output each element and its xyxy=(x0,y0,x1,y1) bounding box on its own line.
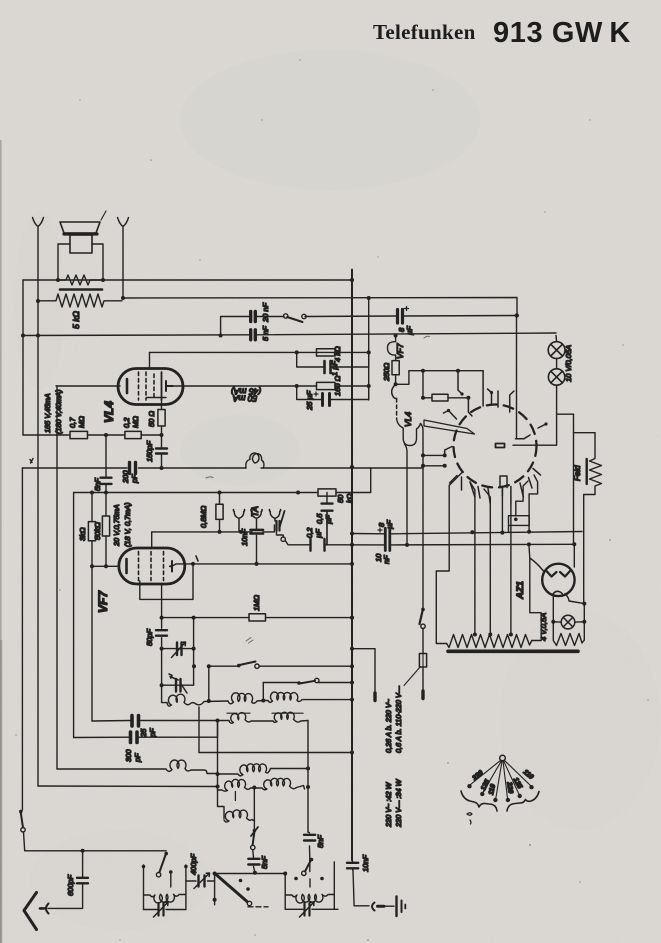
svg-text:AZ1: AZ1 xyxy=(515,581,526,600)
node dots line352 xyxy=(295,350,371,354)
svg-text:3kΩ: 3kΩ xyxy=(78,527,87,541)
TA jack 1 xyxy=(233,510,244,532)
band switch lever (big diagonal) xyxy=(216,875,247,902)
wire line y=617.6 with 1M xyxy=(162,617,352,619)
wire vertical x=92 lower xyxy=(91,566,93,721)
wire y=465.6 choke line to contact xyxy=(423,465,445,467)
node dots y=532 line xyxy=(470,530,531,535)
potentiometer slider bar xyxy=(60,288,102,291)
resistor 50kOhm tone xyxy=(318,489,336,496)
wire line y=386 plate line xyxy=(56,385,369,387)
svg-text:µF: µF xyxy=(324,515,333,524)
wire y=397.8 line xyxy=(423,397,468,399)
wire x=263.3 to switch2 xyxy=(262,683,264,701)
wire switch line y=682.5 xyxy=(263,682,352,684)
resistor box rotary top xyxy=(432,394,448,401)
rotary contact stub up2 xyxy=(482,371,484,406)
right box coil tap xyxy=(309,879,311,887)
svg-text:50 mA: 50 mA xyxy=(232,393,257,403)
resistor 50kOhm screen xyxy=(102,493,109,567)
resistor speaker shunt xyxy=(58,275,103,285)
svg-text:50pF: 50pF xyxy=(145,628,154,646)
wire 0.5uF bottom to line545 xyxy=(326,512,328,545)
wire feedback loop under VF7 xyxy=(140,564,193,600)
selector brace right xyxy=(507,792,539,812)
pointer line to fuse xyxy=(404,667,421,686)
svg-text:0,2: 0,2 xyxy=(122,417,131,428)
svg-text:pF: pF xyxy=(130,474,139,484)
resistor 0.7MOhm xyxy=(70,431,88,438)
right tuned box right rail xyxy=(333,862,335,909)
tube VF7 cathode xyxy=(125,559,128,573)
wire switch line y=666.2 xyxy=(209,665,352,667)
heater VL4 curl chain xyxy=(392,384,397,398)
capacitor 8uF smoothing (series bars) xyxy=(378,528,390,539)
wire x=423 mains down xyxy=(422,455,424,608)
node dot rail 786.5 xyxy=(216,785,220,789)
rotary bottom notch xyxy=(500,476,507,488)
wire line y=873.5 xyxy=(215,873,286,875)
wire line y=468 xyxy=(22,467,423,469)
node dots plate line xyxy=(191,562,354,566)
left box coil xyxy=(144,894,186,903)
svg-text:185 V,45mA: 185 V,45mA xyxy=(43,393,52,433)
svg-text:µF: µF xyxy=(405,326,414,335)
wire AZ1 filament left down xyxy=(552,597,554,622)
right box coil xyxy=(285,894,334,903)
wire heater return x=407 xyxy=(405,444,408,545)
wire line y=335 xyxy=(23,333,556,336)
svg-text:913 GW K: 913 GW K xyxy=(493,17,631,49)
wire tap vertical a xyxy=(470,482,475,634)
wire x=573.5 down to AZ1 xyxy=(573,414,575,544)
svg-text:600pF: 600pF xyxy=(66,874,75,896)
wire vertical x=22.4 xyxy=(21,468,23,810)
wire heater branch right xyxy=(396,371,484,385)
svg-text:(18 V, 0,7mA): (18 V, 0,7mA) xyxy=(123,503,132,547)
node dot DE xyxy=(252,786,256,790)
TA jack 2 xyxy=(251,510,262,529)
capacitor 300pF (series bars) xyxy=(131,732,138,743)
wire bus branch to terminal 1 xyxy=(352,649,375,693)
wire x=502.4 to y=533 xyxy=(501,488,503,533)
svg-text:25 µF: 25 µF xyxy=(305,390,314,411)
pilot lamp 4V xyxy=(553,615,584,629)
rotary contact stub up4 xyxy=(510,391,514,412)
wire trimmer column right x=193.6 xyxy=(193,618,195,685)
node dots 617.6 xyxy=(160,616,354,620)
speaker cone xyxy=(60,222,100,234)
wire y=545 line right of bus xyxy=(352,543,574,546)
capacitor 400pF variable xyxy=(186,873,215,889)
node dots 531.9 xyxy=(218,530,244,534)
svg-text:400pF: 400pF xyxy=(189,853,198,875)
node dots speaker xyxy=(36,278,125,303)
selector brace left xyxy=(461,791,497,811)
node dots x=214.6 xyxy=(213,872,217,902)
node dot 502.4 xyxy=(500,531,504,535)
wire line y=352.4 xyxy=(150,351,371,353)
capacitor 5nF (series in line) xyxy=(251,330,256,340)
band switch contacts xyxy=(239,879,250,891)
node dots line492 xyxy=(90,491,300,495)
capacitor 25uF electrolytic xyxy=(297,386,369,406)
wire cathode corner x=57 xyxy=(56,386,58,769)
node dot bus/280 xyxy=(350,278,354,282)
capacitor 200pF (series) xyxy=(130,463,136,474)
svg-text:pF: pF xyxy=(133,753,142,763)
rotary stub end dots xyxy=(447,391,548,426)
svg-text:10nF: 10nF xyxy=(240,528,249,546)
tube VF7 plate xyxy=(170,561,172,572)
svg-text:5 kΩ: 5 kΩ xyxy=(71,310,81,328)
core dashes IF1 right xyxy=(272,712,303,714)
wire row1 xyxy=(196,701,228,705)
coil IF1 primary A xyxy=(167,694,196,706)
label Feld xyxy=(573,459,587,484)
wire line y=720.5 from x=92 corner xyxy=(92,720,229,723)
svg-text:200: 200 xyxy=(121,470,130,484)
coil osc F (bottom row) xyxy=(224,810,255,822)
node dot row1 AB xyxy=(207,699,211,703)
wire VF7 grid top lead xyxy=(152,532,252,548)
wire y=455.4 xyxy=(423,454,445,456)
node dot 193.6 on 1M line xyxy=(192,616,196,620)
tube AZ1 xyxy=(542,564,574,596)
capacitor 25pF (series bars) xyxy=(132,716,139,727)
node dots 666.2 xyxy=(192,664,354,668)
tube VL4 plate lead xyxy=(166,381,173,391)
resistor 250 Ohm xyxy=(392,361,399,375)
node dot 600pF tap xyxy=(81,849,85,853)
node dot trimmer2 left xyxy=(160,683,164,687)
wire vertical x=254.4 xyxy=(253,787,255,831)
node dot hum box xyxy=(514,518,518,522)
resistor 1MOhm xyxy=(249,614,266,621)
antenna fork left (output terminal) xyxy=(33,218,44,281)
wire x=214.6 xyxy=(214,874,216,900)
switch wave band 2 xyxy=(297,678,319,685)
wire y=533 line with 8uF xyxy=(352,532,582,534)
svg-text:nF: nF xyxy=(382,555,391,564)
capacitor 8uF electrolytic (series in y=316 line) xyxy=(398,307,409,324)
rotary contact stub up1 xyxy=(468,398,472,416)
resistor 5kOhm xyxy=(37,294,122,307)
fuse xyxy=(419,629,426,692)
left box trimmer xyxy=(144,902,186,917)
coil choke y=468 xyxy=(246,453,264,468)
wire line y=316.5 with corner at 220.6 xyxy=(221,316,517,336)
node dot 161.5/468 xyxy=(160,466,164,470)
svg-text:4 kΩ: 4 kΩ xyxy=(333,346,342,362)
svg-text:5nF: 5nF xyxy=(93,478,102,491)
svg-text:0,8MΩ: 0,8MΩ xyxy=(199,505,208,528)
svg-text:Telefunken: Telefunken xyxy=(373,20,476,44)
wire vertical x=74 xyxy=(73,493,75,738)
TA switch bar xyxy=(277,521,280,531)
wire between lamps xyxy=(556,359,558,369)
coil osc D (loops) xyxy=(218,779,255,791)
tube VL4 beam plate bar xyxy=(147,397,167,399)
tube VL4 envelope xyxy=(118,369,183,405)
antenna fork right (output terminal) xyxy=(118,218,129,299)
svg-text:220 V~ :42 W: 220 V~ :42 W xyxy=(384,781,393,828)
node dots 423/455/466 xyxy=(421,453,447,467)
svg-text:VF7: VF7 xyxy=(96,590,110,613)
svg-text:MΩ: MΩ xyxy=(77,416,86,428)
scan edge artifact left xyxy=(0,140,2,943)
svg-text:10nF: 10nF xyxy=(361,854,370,872)
wire x=423 upper xyxy=(422,371,424,398)
svg-text:10 V/0,05A: 10 V/0,05A xyxy=(564,345,573,382)
node dots line435 xyxy=(104,433,164,437)
svg-text:µF: µF xyxy=(314,529,323,538)
node dot bus/466 xyxy=(350,465,354,469)
coil D tap xyxy=(234,792,236,801)
node dots trimmer1 xyxy=(160,647,196,651)
rotary contact wire right-lower 2 xyxy=(529,475,538,532)
svg-text:25: 25 xyxy=(139,728,148,738)
resistor lamp shunt zigzag xyxy=(553,622,584,646)
wire lamp right rail xyxy=(583,604,585,640)
hum box jog xyxy=(509,516,530,533)
stray pen mark xyxy=(101,211,106,220)
capacitor 5nF b xyxy=(304,832,315,860)
capacitor 5nF a xyxy=(248,850,259,873)
tube VL4 cathode xyxy=(126,379,129,393)
selector labels xyxy=(471,769,535,796)
svg-text:220 V— :34 W: 220 V— :34 W xyxy=(394,778,403,828)
coil osc E (loops) xyxy=(254,778,304,789)
wire line y=280 xyxy=(23,279,352,281)
svg-text:0,2: 0,2 xyxy=(305,527,314,538)
wire tap vertical c xyxy=(510,504,512,634)
rotary switch dashed circle xyxy=(454,404,537,487)
node dot 517/315.5 xyxy=(515,313,519,317)
wire zigzag right to AZ1 riser xyxy=(530,558,541,641)
wire line y=786.5 xyxy=(38,785,218,788)
wire rail x=217.5 xyxy=(218,721,225,819)
node dot E right xyxy=(306,785,310,789)
resistor 3kOhm xyxy=(88,493,95,567)
capacitor 50pF xyxy=(156,618,167,649)
wire vertical x=516.5 xyxy=(517,316,522,439)
TA switch lever xyxy=(280,511,285,527)
wire lamp2 down xyxy=(513,385,557,445)
svg-text:250Ω: 250Ω xyxy=(382,362,391,382)
svg-text:4 V,0,5A: 4 V,0,5A xyxy=(539,613,548,641)
dial lamp 1 xyxy=(548,342,565,359)
tube VL4 grids xyxy=(139,372,155,400)
svg-text:0,26 A b. 220 V~: 0,26 A b. 220 V~ xyxy=(384,698,393,753)
node dot bus 648.7 xyxy=(350,647,354,651)
rotary wiper arrow xyxy=(424,420,475,434)
svg-text:20 nF: 20 nF xyxy=(261,302,270,323)
capacitor 0.5uF xyxy=(322,493,333,546)
svg-text:5nF: 5nF xyxy=(316,835,325,848)
wire stub 458 down xyxy=(458,371,462,394)
wire vertical x=368.7 xyxy=(368,298,370,400)
svg-text:1 µF: 1 µF xyxy=(330,360,339,376)
tube VL4 grid3 solid xyxy=(161,372,163,400)
heater VL4 loop xyxy=(397,418,421,445)
resistor heater dropper zigzag xyxy=(447,635,532,648)
svg-text:160 Ω: 160 Ω xyxy=(333,375,342,396)
wire tap vertical b xyxy=(484,489,490,634)
squiggle mark xyxy=(467,813,472,824)
node dot row1 BC xyxy=(261,699,265,703)
heater VF7 curl xyxy=(387,336,395,361)
coil IF1 primary C xyxy=(263,692,352,702)
selector terminal dots xyxy=(467,784,533,802)
switch wave band 1 xyxy=(237,662,259,669)
node dots line335 xyxy=(21,334,398,338)
node dot heater 384.3 xyxy=(394,382,398,386)
capacitor 20nF (series) xyxy=(251,312,256,322)
node dot bus 752.5 xyxy=(350,751,354,755)
wire line y=545 xyxy=(285,541,352,545)
node dots 566 xyxy=(90,564,108,568)
svg-text:0,5: 0,5 xyxy=(315,513,324,524)
resistor 0.8MOhm xyxy=(216,493,223,532)
wire x=208.8 down to row1 xyxy=(208,666,210,701)
node dot 682.5 bus xyxy=(350,681,354,685)
svg-text:VL4: VL4 xyxy=(403,412,413,427)
trimmer capacitor 2 xyxy=(162,649,194,693)
wire rotary to zigzag left riser xyxy=(436,472,463,644)
node dots lamp rails xyxy=(551,602,586,624)
svg-text:150pF: 150pF xyxy=(145,440,154,462)
resistor 0.2MOhm xyxy=(125,431,141,438)
node dot 368.7/298 xyxy=(367,296,371,300)
node dot bus 544.8 xyxy=(350,543,354,547)
svg-text:VL4: VL4 xyxy=(102,401,116,423)
svg-text:50: 50 xyxy=(336,494,345,503)
wire AZ1 right feed xyxy=(573,544,575,567)
coil F variable arrow xyxy=(251,827,258,836)
AZ1 anodes xyxy=(546,571,571,577)
wire line y=435 grid xyxy=(23,434,162,436)
selector rays xyxy=(471,760,531,798)
node dot x=423 on y370 xyxy=(421,369,425,373)
wire TA contact down xyxy=(277,531,284,538)
capacitor 5nF grid xyxy=(101,435,112,493)
wire line y=298 xyxy=(122,298,517,316)
voltage selector hub xyxy=(500,755,506,761)
resistor 160Ohm xyxy=(317,382,336,389)
wire 5nF b to right box xyxy=(309,860,311,872)
wire AZ1 left feed xyxy=(529,544,544,571)
AZ1 filament bubble xyxy=(553,591,563,595)
right box contacts xyxy=(283,872,324,881)
left tuned box right rail xyxy=(185,865,187,910)
svg-text:5nF: 5nF xyxy=(260,856,269,869)
left box coil tap stub xyxy=(169,870,173,887)
svg-text:300: 300 xyxy=(124,749,133,762)
rotary extra stubs xyxy=(444,389,547,483)
stray mark x xyxy=(30,459,33,464)
svg-text:50kΩ: 50kΩ xyxy=(93,522,102,540)
capacitor 10nF TA xyxy=(251,530,264,534)
wire 10nF to plate line xyxy=(256,536,258,564)
right box switch xyxy=(302,858,314,876)
svg-text:MΩ: MΩ xyxy=(131,416,140,428)
wire trimmer column to coil A xyxy=(162,685,167,702)
node dot 254.9 xyxy=(253,871,257,875)
wire plate line y=563.9 xyxy=(172,564,352,566)
coil IF1 secondary C2 xyxy=(273,712,308,722)
wire x=217.5 jog xyxy=(217,721,219,738)
svg-text:Feld: Feld xyxy=(573,465,582,481)
node dot bus 617 xyxy=(350,616,354,620)
node dots line386 xyxy=(295,384,371,388)
wire line y=566.3 cathode VF7 xyxy=(92,565,119,567)
wire branch to Feld xyxy=(557,414,595,433)
node dot row1 bus xyxy=(350,698,354,702)
node dots zigzag taps xyxy=(473,633,513,637)
rotary contact stub up3 xyxy=(497,391,499,407)
node dot 217.5 on y720 xyxy=(216,719,220,723)
coil osc mid (4 loops) xyxy=(218,764,309,776)
wire VF7 bottom lead x=161.6 xyxy=(161,584,163,618)
rotary contact left stub xyxy=(445,447,452,456)
node dot 407/545 xyxy=(405,543,409,547)
band switch contact circle xyxy=(247,901,251,905)
node dots y=397.8 xyxy=(421,396,470,400)
resistor 4kOhm xyxy=(317,349,336,356)
svg-text:50 Ω: 50 Ω xyxy=(147,411,156,427)
resistor 50 Ohm xyxy=(158,400,165,435)
coil IF1 primary B xyxy=(228,693,263,704)
tube VF7 grids xyxy=(139,552,164,581)
switch left bus bottom xyxy=(19,810,25,832)
node dots y=545 xyxy=(527,542,576,546)
wire below lever xyxy=(215,900,268,907)
TA jack 3 with switch xyxy=(269,510,280,522)
wire AZ1 bottom right to lamp rail xyxy=(565,594,584,604)
mains switch xyxy=(420,608,426,629)
svg-text:(180 V,40mA): (180 V,40mA) xyxy=(54,390,63,434)
tick mark at plate xyxy=(196,556,198,561)
wire vertical x=23 upper xyxy=(22,280,24,435)
rotary contact wire right-lower 1 xyxy=(516,481,528,516)
right box trimmer xyxy=(285,902,338,917)
wire VL4 top lead xyxy=(149,352,151,369)
coil IF1 secondary B2 xyxy=(229,713,273,724)
wire line y=492.5 AVC xyxy=(74,468,371,493)
wire voice coil loop xyxy=(58,244,103,280)
rotary contact right (from 516) xyxy=(516,435,531,439)
TA switch contact xyxy=(281,537,285,541)
capacitor 0.2uF xyxy=(311,539,325,551)
coil osc top (2 humps) xyxy=(57,760,218,774)
right tuned box left rail xyxy=(284,874,286,910)
wire C2 right down x=308 xyxy=(307,721,309,833)
wire to antenna line xyxy=(24,832,167,851)
wire vertical x=199 xyxy=(198,707,200,753)
wire heater U right to x=423 xyxy=(421,424,424,456)
speaker voice coil xyxy=(70,235,92,253)
node dots row3 xyxy=(216,767,311,777)
switch tone xyxy=(284,314,307,322)
dial lamp 2 xyxy=(548,369,564,385)
svg-text:µF: µF xyxy=(385,520,394,529)
svg-text:TA: TA xyxy=(250,506,260,517)
tube VF7 envelope xyxy=(119,548,185,584)
mains terminal 2 xyxy=(421,691,424,699)
wire line y=531.9 right part xyxy=(263,525,274,532)
heater baseplate bar xyxy=(448,649,578,653)
